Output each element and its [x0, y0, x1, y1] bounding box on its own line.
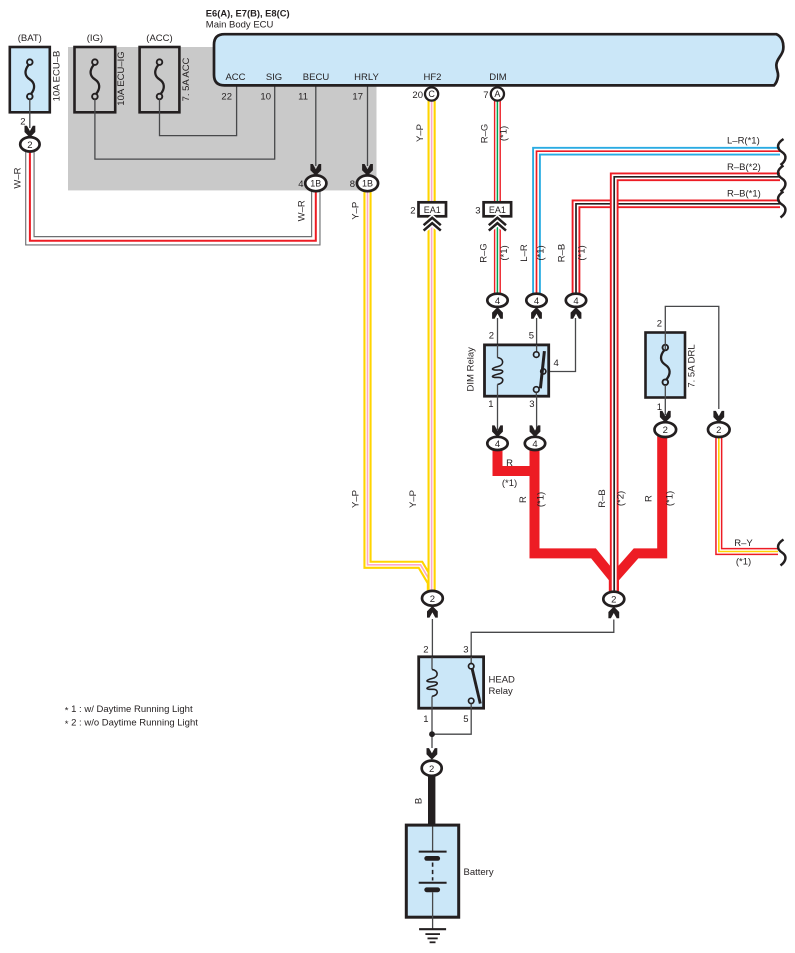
wire HEAD relay pin2 up — [431, 619, 433, 657]
svg-text:DIM: DIM — [489, 72, 507, 83]
arrow into red junction connector — [608, 607, 619, 619]
tear mark R-Y — [778, 540, 785, 566]
svg-text:(*1): (*1) — [665, 491, 676, 506]
svg-text:2: 2 — [663, 425, 668, 436]
wire R-B(*2) — [597, 162, 780, 593]
fuse (BAT) 10A ECU-B — [10, 33, 63, 112]
arrow into connector 2 right — [713, 411, 724, 423]
svg-text:(*1): (*1) — [536, 245, 547, 260]
svg-text:R: R — [644, 495, 655, 502]
svg-text:3: 3 — [463, 645, 468, 656]
BAT fuse pin 2 wire — [29, 99, 31, 128]
svg-text:Y–P: Y–P — [350, 202, 361, 220]
svg-text:(BAT): (BAT) — [18, 33, 42, 44]
svg-text:R–B(*2): R–B(*2) — [727, 162, 761, 173]
svg-text:DIM Relay: DIM Relay — [466, 347, 477, 392]
Main Body ECU — [206, 8, 784, 103]
svg-text:EA1: EA1 — [489, 205, 506, 215]
svg-text:22: 22 — [221, 92, 232, 103]
svg-text:4: 4 — [495, 439, 500, 450]
junction dot — [429, 731, 435, 737]
svg-text:R–Y: R–Y — [734, 538, 753, 549]
arrow from DIM relay pin 5 — [531, 307, 542, 319]
svg-text:E6(A), E7(B), E8(C): E6(A), E7(B), E8(C) — [206, 8, 290, 19]
svg-text:17: 17 — [352, 92, 363, 103]
notes — [65, 704, 198, 730]
svg-text:4: 4 — [298, 179, 303, 190]
connector 2 above battery — [422, 761, 442, 776]
svg-text:Y–P: Y–P — [415, 124, 426, 142]
ground — [419, 917, 446, 942]
thick red wire from DIM relay pin3 connector to junction — [535, 448, 614, 594]
junction connector 2 (Y-P) — [422, 591, 443, 606]
connector 1B left — [298, 175, 326, 191]
svg-text:* 2 : w/o Daytime Running Ligh: * 2 : w/o Daytime Running Light — [65, 717, 198, 730]
svg-text:Main Body ECU: Main Body ECU — [206, 20, 274, 31]
svg-text:W–R: W–R — [296, 200, 307, 221]
junction connector 2 (red) — [603, 592, 624, 607]
svg-text:HRLY: HRLY — [354, 72, 379, 83]
svg-text:4: 4 — [534, 296, 539, 307]
svg-text:1B: 1B — [362, 179, 373, 189]
svg-text:3: 3 — [529, 399, 534, 410]
connector 1B right — [350, 175, 378, 191]
svg-text:(*1): (*1) — [577, 245, 588, 260]
svg-text:ACC: ACC — [225, 72, 245, 83]
svg-text:EA1: EA1 — [424, 205, 441, 215]
wire DIM relay pin1 down — [497, 396, 499, 430]
wire W-R from BAT to BECU 1B — [13, 151, 316, 241]
svg-text:* 1 : w/ Daytime Running Light: * 1 : w/ Daytime Running Light — [65, 704, 193, 717]
wire Y-P from HRLY 1B to junction — [350, 191, 431, 593]
arrow into BAT connector — [25, 126, 36, 138]
svg-text:(*1): (*1) — [502, 478, 517, 489]
svg-text:10A ECU–B: 10A ECU–B — [52, 51, 63, 102]
svg-text:B: B — [413, 798, 424, 804]
svg-text:(*1): (*1) — [499, 126, 510, 141]
svg-text:(*2): (*2) — [616, 491, 627, 506]
wire HEAD relay pin3 route — [471, 620, 614, 657]
DIM relay — [466, 331, 559, 411]
svg-text:R–G: R–G — [479, 124, 490, 144]
connector 2 below BAT — [20, 137, 39, 151]
svg-text:2: 2 — [27, 140, 32, 151]
svg-text:R–B: R–B — [557, 244, 568, 262]
svg-text:L–R(*1): L–R(*1) — [727, 136, 760, 147]
svg-text:10: 10 — [260, 92, 271, 103]
svg-text:2: 2 — [429, 764, 434, 775]
svg-text:4: 4 — [573, 296, 578, 307]
svg-text:2: 2 — [657, 319, 662, 330]
pin A circle — [491, 87, 504, 100]
wire HRLY pin 17 stub — [367, 85, 369, 166]
svg-text:1: 1 — [423, 714, 428, 725]
wire DIM relay pin4 to connector — [546, 318, 576, 372]
svg-text:(*1): (*1) — [536, 492, 547, 507]
wire HEAD relay pin1 down — [431, 708, 433, 748]
svg-text:Y–P: Y–P — [408, 490, 419, 508]
wire R-Y — [719, 436, 778, 568]
wire B thick black — [428, 776, 435, 827]
wire DIM relay pin3 down — [536, 396, 538, 430]
svg-text:HF2: HF2 — [424, 72, 442, 83]
svg-text:4: 4 — [554, 358, 559, 369]
svg-text:20: 20 — [412, 90, 423, 101]
connector 4 row: R-G — [487, 294, 507, 307]
wire ACC fuse to ECU pin 22 — [160, 85, 237, 136]
fuse (IG) 10A ECU-IG — [75, 33, 128, 112]
svg-text:7: 7 — [483, 90, 488, 101]
svg-text:7. 5A ACC: 7. 5A ACC — [181, 57, 192, 101]
svg-text:R–B: R–B — [597, 489, 608, 507]
svg-text:4: 4 — [495, 296, 500, 307]
svg-text:BECU: BECU — [303, 72, 330, 83]
svg-text:R: R — [506, 458, 513, 469]
svg-text:Y–P: Y–P — [350, 490, 361, 508]
svg-text:W–R: W–R — [13, 167, 24, 188]
svg-text:A: A — [494, 89, 500, 99]
tear mark R-B2 — [778, 166, 785, 192]
arrow into 1B left — [310, 164, 321, 176]
svg-text:5: 5 — [529, 331, 534, 342]
svg-text:2: 2 — [489, 331, 494, 342]
svg-text:2: 2 — [410, 206, 415, 217]
svg-text:R–G: R–G — [479, 243, 490, 263]
svg-text:7. 5A DRL: 7. 5A DRL — [687, 344, 698, 387]
connector EA1 on R-G — [475, 202, 511, 230]
svg-text:4: 4 — [532, 439, 537, 450]
wire DRL pin1 down — [664, 385, 666, 415]
svg-text:C: C — [428, 89, 435, 99]
svg-text:L–R: L–R — [519, 244, 530, 262]
arrow from DIM relay pin 2 — [492, 307, 503, 319]
svg-text:(*1): (*1) — [499, 245, 510, 260]
svg-text:2: 2 — [611, 595, 616, 606]
tear mark L-R — [778, 139, 785, 165]
fuse 7.5A DRL — [646, 333, 698, 398]
connector 4 below pin1 — [487, 437, 507, 450]
connector 4 row: L-R — [526, 294, 546, 307]
arrow into Y-P junction connector — [427, 606, 438, 618]
svg-text:SIG: SIG — [266, 72, 282, 83]
wire Y-P from HF2 to junction — [408, 94, 432, 592]
arrow into 1B right — [362, 164, 373, 176]
wire IG fuse to ECU pin 10 — [95, 85, 275, 159]
thick red wire from DIM relay pin1 connector — [498, 448, 538, 471]
svg-text:5: 5 — [463, 714, 468, 725]
svg-text:1: 1 — [488, 399, 493, 410]
battery — [406, 825, 494, 917]
svg-text:11: 11 — [298, 92, 308, 103]
connector 4 row: R-B — [566, 294, 586, 307]
svg-text:1B: 1B — [310, 179, 321, 189]
svg-text:2: 2 — [430, 594, 435, 605]
svg-text:2: 2 — [716, 425, 721, 436]
svg-text:10A ECU–IG: 10A ECU–IG — [116, 51, 127, 105]
svg-text:(*1): (*1) — [736, 557, 751, 568]
fuse (ACC) 7.5A ACC — [140, 33, 192, 112]
svg-text:R: R — [518, 496, 529, 503]
arrow from DIM relay pin 4 — [571, 307, 582, 319]
wire L-R — [519, 136, 780, 297]
pin C circle — [425, 87, 438, 100]
wire BECU pin 11 stub — [315, 85, 317, 166]
svg-text:8: 8 — [350, 179, 355, 190]
svg-text:(ACC): (ACC) — [146, 33, 172, 44]
wire DIM relay pin2 up — [497, 318, 499, 345]
svg-text:Battery: Battery — [464, 867, 494, 878]
svg-text:R–B(*1): R–B(*1) — [727, 189, 761, 200]
HEAD relay — [419, 645, 515, 726]
arrow into connector 2 below DRL — [660, 411, 671, 423]
svg-text:3: 3 — [475, 206, 480, 217]
svg-text:HEAD: HEAD — [489, 675, 516, 686]
junction block shading — [68, 47, 377, 190]
wire DIM relay pin5 up — [536, 318, 538, 345]
connector EA1 on Y-P — [410, 202, 446, 230]
wire HEAD relay pin5 down-left — [432, 708, 471, 734]
svg-text:2: 2 — [423, 645, 428, 656]
wire DRL pin2 route — [665, 306, 719, 409]
connector 2 right — [708, 422, 730, 437]
svg-text:(IG): (IG) — [87, 33, 103, 44]
connector 4 below pin3 — [525, 437, 545, 450]
svg-text:Relay: Relay — [489, 686, 514, 697]
wire R-B(*1) — [557, 189, 781, 297]
connector 2 below DRL — [655, 422, 677, 437]
thick red wire from DRL fuse to junction — [614, 436, 662, 594]
wire R-G from DIM pin to relay connector — [479, 94, 510, 296]
arrow into battery connector — [427, 748, 438, 760]
tear mark R-B1 — [778, 192, 785, 218]
